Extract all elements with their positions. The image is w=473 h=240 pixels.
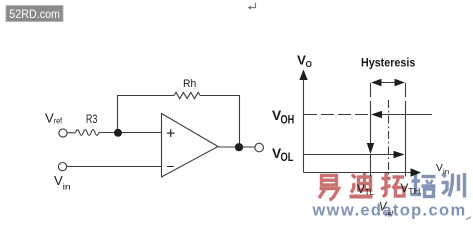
red watermark chars 易迪拓 (hand drawn strokes)	[319, 173, 404, 201]
wire op-amp output	[218, 146, 255, 148]
VOH solid branch	[377, 114, 432, 116]
terminal output	[255, 143, 264, 152]
svg-text:Rh: Rh	[183, 78, 196, 90]
x axis	[304, 172, 414, 174]
center dash-dot Vref line	[388, 100, 390, 178]
svg-text:OL: OL	[281, 152, 294, 164]
char tuo	[381, 173, 404, 197]
VOH level dashed segment	[304, 114, 369, 116]
VOH left arrowhead	[371, 111, 382, 118]
svg-text:−: −	[166, 158, 174, 174]
hysteresis double arrow shaft	[378, 82, 398, 84]
terminal Vin	[58, 163, 66, 171]
vertical VTH solid	[405, 115, 407, 177]
paragraph return mark	[248, 3, 256, 10]
VOL right arrowhead	[394, 151, 405, 158]
vertical VTL solid	[370, 115, 372, 146]
svg-text:V: V	[45, 111, 54, 126]
op-amp U1	[162, 114, 219, 178]
x axis arrowhead	[411, 168, 422, 176]
VOL branch line	[304, 154, 396, 156]
char pei	[411, 174, 436, 197]
vertical VTL below VOL	[370, 155, 372, 177]
y axis	[303, 78, 305, 173]
output node junction dot	[235, 143, 243, 151]
svg-text:www.edatop.com: www.edatop.com	[312, 201, 467, 219]
VTL down arrowhead	[367, 143, 374, 154]
char xun	[442, 173, 465, 198]
wire Vref to R3	[67, 132, 76, 134]
wire node A up to feedback	[117, 96, 119, 133]
node A junction dot	[114, 129, 122, 137]
blue watermark chars 培训 (hand drawn strokes)	[411, 173, 465, 198]
resistor R3	[76, 130, 99, 136]
watermark 52RD.com	[6, 6, 63, 22]
svg-text:ref: ref	[54, 117, 63, 126]
svg-text:in: in	[63, 182, 72, 192]
svg-text:O: O	[306, 59, 313, 69]
svg-text:R3: R3	[86, 112, 98, 126]
wire R3 to node A	[99, 132, 162, 134]
char yi	[319, 176, 339, 201]
char di	[350, 173, 373, 197]
svg-text:Hysteresis: Hysteresis	[361, 56, 416, 70]
wire feedback top right	[200, 96, 239, 148]
svg-text:OH: OH	[281, 114, 295, 126]
resistor Rh	[174, 92, 200, 98]
wire Vin to op-amp	[67, 166, 162, 168]
terminal Vref	[59, 129, 67, 137]
svg-text:52RD.com: 52RD.com	[9, 9, 60, 21]
vertical VTL dashed upper	[370, 83, 372, 115]
vertical VTH dashed upper	[405, 83, 407, 115]
hysteresis arrow right head	[395, 79, 406, 86]
y axis arrowhead	[299, 70, 307, 81]
hysteresis arrow left head	[371, 79, 382, 86]
corner pen mark	[466, 217, 471, 220]
wire feedback top left	[117, 95, 174, 97]
svg-text:+: +	[166, 125, 175, 142]
